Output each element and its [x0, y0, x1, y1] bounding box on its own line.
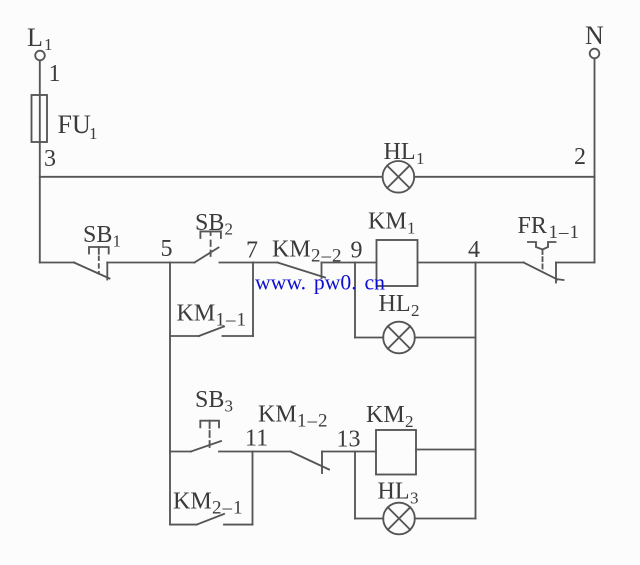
wire KM2-1 branch left — [170, 524, 197, 526]
wire KM2 coil to node 4 vertical — [416, 449, 476, 451]
pushbutton SB2 (NO) — [195, 231, 221, 262]
svg-text:KM: KM — [177, 301, 216, 327]
contact FR1-1 thermal relay (NC) — [524, 242, 564, 283]
svg-text:HL: HL — [384, 139, 416, 165]
svg-text:SB: SB — [83, 222, 112, 248]
wire node 11 down to KM2-1 branch — [252, 452, 254, 525]
lamp HL1 — [383, 161, 415, 193]
label HL1 — [384, 139, 425, 168]
svg-text:FU: FU — [58, 110, 91, 139]
label HL2 — [379, 291, 420, 320]
wire node 5 to SB2 — [170, 262, 195, 264]
svg-text:N: N — [585, 21, 604, 50]
svg-text:1: 1 — [89, 124, 98, 143]
svg-text:SB: SB — [195, 210, 224, 236]
svg-text:1: 1 — [113, 232, 122, 251]
wire node 4 to FR1-1 — [476, 262, 524, 264]
wire SB1 to node 5 — [107, 262, 170, 264]
wire top rung right of HL1 — [414, 176, 594, 178]
lamp HL2 — [383, 322, 415, 354]
wire KM2-2 to KM1 coil — [322, 262, 377, 264]
label KM2 — [366, 402, 414, 431]
wire SB3 to node 11 — [219, 451, 253, 453]
svg-text:9: 9 — [351, 238, 363, 264]
wire node 7 to KM2-2 — [253, 262, 278, 264]
svg-text:1: 1 — [407, 219, 416, 238]
node N terminal — [590, 49, 600, 59]
wire FR1-1 to right vertical — [556, 262, 595, 264]
svg-text:KM: KM — [368, 209, 407, 235]
wire node 5 down through SB3 rung to KM2-1 branch — [169, 263, 171, 525]
wire KM1-2 to KM2 coil — [322, 451, 376, 453]
wire N down to FR rung — [594, 59, 596, 263]
label SB2 — [195, 210, 233, 239]
svg-text:SB: SB — [195, 387, 224, 413]
label HL3 — [378, 479, 419, 508]
lamp HL3 — [383, 503, 415, 535]
svg-text:13: 13 — [337, 427, 361, 453]
svg-text:7: 7 — [246, 238, 258, 264]
node L1 terminal — [35, 51, 45, 61]
svg-text:KM: KM — [272, 237, 311, 263]
label FR1-1 — [518, 213, 581, 243]
wire KM2-1 branch right — [224, 524, 253, 526]
contact KM1-1 (NO) — [199, 327, 224, 337]
wire HL2 branch left — [355, 337, 383, 339]
label KM1-1 — [177, 301, 248, 331]
wire KM1 coil to node 4 — [418, 262, 476, 264]
label SB3 — [195, 387, 233, 416]
svg-text:2: 2 — [225, 220, 234, 239]
svg-text:KM: KM — [366, 402, 405, 428]
wire node 9 down to HL2 branch — [354, 263, 356, 338]
svg-text:1–1: 1–1 — [549, 222, 581, 243]
wire lower rung into SB3 — [170, 451, 191, 453]
wire HL3 branch right — [415, 518, 476, 520]
pushbutton SB1 (NC) — [74, 247, 110, 280]
contact KM2-2 (NC) — [278, 263, 326, 279]
svg-text:3: 3 — [410, 489, 419, 508]
wire node 4 down to HL3 branch — [475, 263, 477, 519]
svg-text:1: 1 — [44, 35, 53, 54]
svg-text:2: 2 — [405, 412, 414, 431]
svg-text:2–1: 2–1 — [212, 498, 244, 519]
svg-text:3: 3 — [44, 146, 56, 172]
svg-text:www. pw0. cn: www. pw0. cn — [255, 270, 385, 295]
coil KM1 — [377, 240, 418, 286]
svg-text:FR: FR — [518, 213, 547, 239]
wire node 13 down to HL3 branch — [354, 452, 356, 519]
svg-text:4: 4 — [468, 237, 480, 263]
wire node 11 to KM1-2 — [253, 451, 291, 453]
label KM1 — [368, 209, 416, 238]
svg-text:3: 3 — [225, 397, 234, 416]
label KM2-2 — [272, 237, 343, 267]
svg-text:2: 2 — [411, 301, 420, 320]
label KM2-1 — [173, 489, 244, 519]
svg-text:5: 5 — [161, 236, 173, 262]
svg-text:KM: KM — [173, 489, 212, 515]
svg-text:1–2: 1–2 — [297, 411, 329, 432]
svg-text:HL: HL — [378, 479, 410, 505]
svg-text:1: 1 — [416, 149, 425, 168]
svg-text:1: 1 — [49, 61, 61, 87]
wire SB2 to node 7 — [220, 262, 254, 264]
wire L1 to fuse and down to SB1 rung — [39, 61, 41, 263]
contact KM2-1 (NO) — [197, 514, 224, 525]
label FU1 — [58, 110, 98, 143]
svg-text:1–1: 1–1 — [216, 310, 248, 331]
label SB1 — [83, 222, 121, 251]
label L1 — [27, 23, 53, 54]
svg-text:KM: KM — [258, 402, 297, 428]
coil KM2 — [376, 430, 416, 475]
fuse FU1 — [32, 95, 48, 142]
wire HL3 branch left — [355, 518, 383, 520]
label KM1-2 — [258, 402, 329, 432]
wire main rung into SB1 — [40, 262, 74, 264]
pushbutton SB3 (NO) — [191, 421, 221, 452]
svg-text:2: 2 — [574, 144, 586, 170]
wire node 7 down to KM1-1 branch — [252, 263, 254, 337]
contact KM1-2 (NC) — [291, 452, 330, 474]
wire top rung left of HL1 — [40, 176, 383, 178]
wire KM1-1 branch right — [223, 335, 254, 337]
wire KM1-1 branch left — [170, 335, 199, 337]
svg-text:11: 11 — [245, 426, 268, 452]
svg-text:L: L — [27, 23, 43, 52]
wire HL2 branch right — [415, 337, 476, 339]
svg-text:HL: HL — [379, 291, 411, 317]
